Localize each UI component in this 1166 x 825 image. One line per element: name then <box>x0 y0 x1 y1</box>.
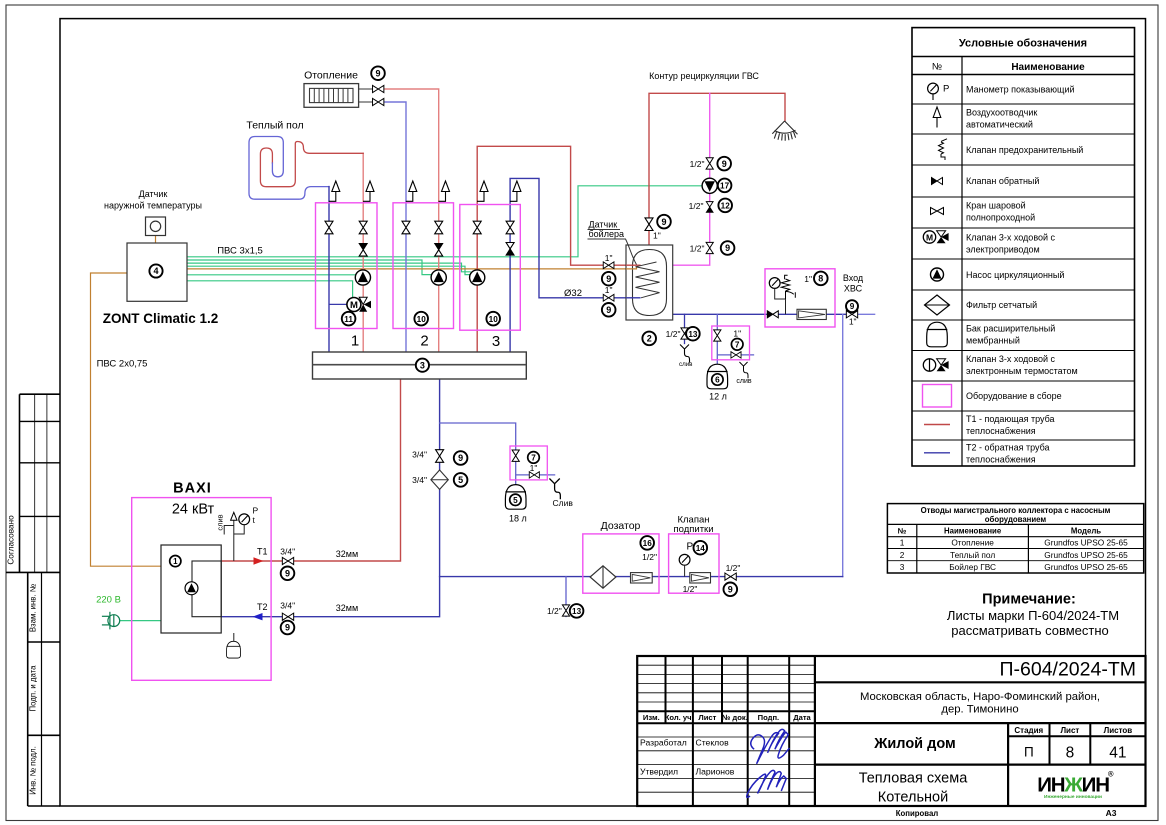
svg-text:1/2": 1/2" <box>690 243 705 253</box>
pump 1 <box>355 270 370 285</box>
check valve group1 <box>359 244 367 257</box>
node 16 <box>640 536 654 550</box>
safety group gauge <box>769 278 785 315</box>
check valve group3 <box>506 243 514 256</box>
svg-text:24 кВт: 24 кВт <box>172 502 215 518</box>
svg-text:Котельной: Котельной <box>878 790 948 806</box>
legend sym: pump <box>931 268 944 281</box>
svg-text:Клапан обратный: Клапан обратный <box>966 176 1039 186</box>
svg-text:Слив: Слив <box>553 498 574 508</box>
assembly box group2 <box>393 203 454 329</box>
18l drain valve <box>529 472 539 478</box>
svg-text:Датчик: Датчик <box>139 189 168 199</box>
pipe radiator red connection <box>384 89 439 352</box>
svg-text:ИНЖИН: ИНЖИН <box>1037 774 1109 797</box>
svg-text:Ларионов: Ларионов <box>696 767 735 777</box>
node 9k <box>724 583 738 597</box>
svg-text:Наименование: Наименование <box>944 527 1002 536</box>
svg-text:9: 9 <box>728 585 733 595</box>
assembly box group1 <box>316 203 378 329</box>
svg-text:Теплый пол: Теплый пол <box>246 120 303 132</box>
recirc valve top <box>706 158 713 169</box>
pump outlet table texts <box>898 506 1111 536</box>
pipe T1 from BAXI <box>221 379 400 561</box>
wire green 220V to BAXI <box>120 620 162 622</box>
node 10a <box>414 312 428 326</box>
svg-text:Кол. уч.: Кол. уч. <box>665 713 694 722</box>
BAXI tank stem <box>233 633 235 641</box>
node 13a <box>570 604 584 618</box>
pipe T2 to BAXI <box>221 379 439 617</box>
svg-text:Утвердил: Утвердил <box>640 767 678 777</box>
svg-text:13: 13 <box>688 330 698 339</box>
pipe group3 red to boiler <box>477 146 640 352</box>
svg-text:16: 16 <box>643 539 653 548</box>
svg-text:9: 9 <box>606 305 611 315</box>
svg-text:®: ® <box>1108 770 1114 779</box>
svg-text:Подп.: Подп. <box>758 713 780 722</box>
shower head <box>772 121 797 141</box>
node 9a <box>371 66 385 80</box>
pipe 12l tank branch <box>717 314 753 364</box>
logo INJIN <box>1037 770 1114 801</box>
legend sym: manometer <box>928 83 950 100</box>
node 7b <box>731 339 743 351</box>
svg-text:Дата: Дата <box>793 713 811 722</box>
svg-text:электронным термостатом: электронным термостатом <box>966 366 1078 376</box>
wire ПВС green 2 to pump 2 <box>187 260 431 275</box>
svg-text:Тепловая схема: Тепловая схема <box>859 771 969 787</box>
svg-text:слив: слив <box>679 361 693 368</box>
svg-text:3: 3 <box>492 333 500 350</box>
pipe T1 red riser group1 <box>362 153 364 352</box>
air vent group3 red <box>477 181 488 201</box>
radiator Отопление <box>304 84 359 108</box>
svg-text:подпитки: подпитки <box>673 524 713 535</box>
svg-text:3/4": 3/4" <box>412 449 427 459</box>
label Вход ХВС <box>843 273 864 294</box>
svg-text:18 л: 18 л <box>509 514 527 524</box>
svg-text:1": 1" <box>605 253 613 263</box>
svg-text:1/2": 1/2" <box>683 584 698 594</box>
wire orange outdoor sensor stub <box>155 236 157 244</box>
svg-text:№ док.: № док. <box>722 713 748 722</box>
svg-text:полнопроходной: полнопроходной <box>966 212 1035 222</box>
svg-text:Оборудование в сборе: Оборудование в сборе <box>966 391 1062 401</box>
svg-text:наружной температуры: наружной температуры <box>104 201 202 211</box>
boiler left lower valve 1" <box>603 294 614 301</box>
svg-text:5: 5 <box>458 475 463 485</box>
radiator valve top <box>373 85 384 92</box>
node 9i <box>281 567 295 581</box>
svg-text:Инв. № подл.: Инв. № подл. <box>29 746 38 795</box>
svg-text:9: 9 <box>285 623 290 633</box>
svg-text:Листы марки П-604/2024-ТМ: Листы марки П-604/2024-ТМ <box>947 608 1119 623</box>
BAXI air vent triangle <box>231 512 237 520</box>
wire ПВС green 5 to pump 1 <box>187 274 356 276</box>
svg-text:8: 8 <box>1066 745 1075 762</box>
node 9j <box>281 621 295 635</box>
wire ПВС green 4 to pump 3 <box>187 266 470 274</box>
signature 1 <box>751 729 790 764</box>
BAXI vent line <box>224 520 234 561</box>
T2 arrow <box>253 613 263 620</box>
svg-text:Согласовано: Согласовано <box>7 515 16 565</box>
pipe floor-heating blue loop <box>249 137 329 200</box>
pump 3 <box>470 270 485 285</box>
pipe cold water boiler out <box>673 313 847 315</box>
label P t <box>253 506 259 526</box>
air vent group1 blue <box>329 181 340 201</box>
svg-text:Теплый пол: Теплый пол <box>950 550 995 560</box>
air vent group2 blue <box>406 181 417 201</box>
svg-text:12 л: 12 л <box>709 392 727 402</box>
svg-text:14: 14 <box>696 544 706 553</box>
ball valve group2 blue <box>402 221 410 234</box>
svg-text:3/4": 3/4" <box>280 547 295 557</box>
svg-text:32мм: 32мм <box>336 549 358 559</box>
svg-text:Листов: Листов <box>1104 726 1133 735</box>
node 17 <box>718 179 732 193</box>
power plug 220V <box>102 612 120 630</box>
left margin lower attribute block <box>28 572 60 806</box>
legend sym: safety valve <box>939 139 948 160</box>
recirc valve bottom <box>706 242 713 253</box>
node 9e <box>717 157 731 171</box>
BAXI expansion tank <box>226 641 240 658</box>
svg-text:Отопление: Отопление <box>951 538 994 548</box>
svg-text:Ø32: Ø32 <box>564 288 582 299</box>
outdoor sensor box <box>146 217 166 236</box>
svg-text:теплоснабжения: теплоснабжения <box>966 454 1036 464</box>
svg-text:10: 10 <box>489 315 499 324</box>
legend names <box>966 84 1083 464</box>
svg-text:2: 2 <box>420 333 428 350</box>
svg-text:1: 1 <box>351 333 359 350</box>
svg-text:Grundfos UPSO 25-65: Grundfos UPSO 25-65 <box>1044 538 1128 548</box>
svg-text:2: 2 <box>647 334 652 344</box>
safety group check valve <box>767 311 778 318</box>
svg-text:№: № <box>898 527 907 536</box>
svg-text:автоматический: автоматический <box>966 119 1033 129</box>
svg-text:7: 7 <box>735 340 740 349</box>
make-up drain valve 13 <box>562 605 569 616</box>
18l valve <box>512 450 519 461</box>
svg-text:Наименование: Наименование <box>1011 62 1085 73</box>
svg-text:Фильтр сетчатый: Фильтр сетчатый <box>966 300 1037 310</box>
boiler top valve <box>645 218 653 231</box>
boiler left upper valve 1" <box>603 262 614 269</box>
wire ПВС green 6 to 3-way valve M <box>187 281 353 298</box>
legend sym: check valve <box>932 178 943 185</box>
BAXI boiler inner box <box>161 545 221 633</box>
ball valve group1 red <box>359 221 367 234</box>
svg-text:8: 8 <box>818 274 823 284</box>
node 9f <box>721 241 735 255</box>
svg-text:1": 1" <box>605 285 613 295</box>
svg-text:№: № <box>932 62 942 73</box>
svg-text:220 В: 220 В <box>96 595 121 606</box>
node 12 <box>718 199 732 213</box>
T1 valve 3/4 <box>282 557 293 564</box>
label Датчик наружной температуры <box>104 189 202 211</box>
svg-text:5: 5 <box>513 496 518 505</box>
svg-text:Манометр показывающий: Манометр показывающий <box>966 84 1075 94</box>
legend sym: 3-way motor valve <box>923 231 948 243</box>
svg-text:Модель: Модель <box>1071 527 1101 536</box>
pipe ГВС recirculation red <box>649 93 785 245</box>
svg-text:Лист: Лист <box>698 713 716 722</box>
make-up gauge <box>679 554 690 576</box>
svg-text:1/2": 1/2" <box>666 329 681 339</box>
svg-text:Клапан 3-х ходовой с: Клапан 3-х ходовой с <box>966 354 1056 364</box>
svg-text:32мм: 32мм <box>336 603 358 613</box>
boiler drain hook <box>680 345 690 363</box>
recirc check valve 12 <box>706 202 713 213</box>
3-way valve M group1 <box>329 297 371 311</box>
svg-text:М: М <box>350 300 358 311</box>
ball valve group3 blue <box>506 221 514 234</box>
make-up line valve <box>725 573 736 580</box>
title block grid <box>637 656 1145 806</box>
legend sym: T1 line <box>924 424 950 426</box>
wire ПВС green 3 to pump 3 <box>187 263 470 272</box>
svg-text:Р: Р <box>687 542 694 553</box>
node 9c <box>602 272 616 286</box>
svg-text:мембранный: мембранный <box>966 336 1020 346</box>
label Клапан подпитки <box>673 515 713 536</box>
12l valve <box>714 330 721 341</box>
ball valve group2 red <box>435 221 443 234</box>
assembly box 18l <box>510 446 547 480</box>
18l drain hook <box>549 479 560 500</box>
svg-text:Инженерные инновации: Инженерные инновации <box>1044 794 1102 800</box>
legend table grid <box>912 28 1135 466</box>
wire ПВС green 1 to recirculation pump <box>187 186 702 257</box>
BAXI gauge <box>234 514 250 534</box>
assembly box safety group <box>765 269 835 327</box>
svg-text:Московская область, Наро-Фомин: Московская область, Наро-Фоминский район… <box>860 691 1100 703</box>
node 9b <box>657 215 671 229</box>
svg-text:Воздухоотводчик: Воздухоотводчик <box>966 107 1037 117</box>
svg-text:Лист: Лист <box>1060 726 1079 735</box>
make-up reducer <box>690 573 711 583</box>
svg-text:Т1: Т1 <box>257 547 268 557</box>
boiler coil <box>636 262 660 298</box>
svg-text:А3: А3 <box>1106 808 1117 818</box>
legend sym: air vent <box>933 107 941 128</box>
node 6 <box>712 374 723 385</box>
svg-text:Взам. инв. №: Взам. инв. № <box>29 584 38 632</box>
node 14 <box>694 541 708 555</box>
pipe group3 blue to boiler <box>510 178 640 352</box>
svg-text:3: 3 <box>900 562 905 572</box>
svg-text:BAXI: BAXI <box>173 481 212 497</box>
svg-text:1: 1 <box>900 538 905 548</box>
svg-text:1/2": 1/2" <box>726 563 741 573</box>
wire orange to boiler sensor <box>187 266 637 269</box>
dozator injector <box>631 573 653 583</box>
svg-text:Отводы магистрального коллекто: Отводы магистрального коллектора с насос… <box>921 506 1111 515</box>
ball valve group3 red <box>473 221 481 234</box>
air vent group2 red <box>439 181 450 201</box>
svg-text:1": 1" <box>653 231 661 241</box>
node 9g <box>846 300 858 312</box>
stage header <box>1014 726 1132 735</box>
boiler indirect heater box <box>626 245 673 320</box>
assembly box group3 <box>460 205 521 331</box>
svg-text:Бак расширительный: Бак расширительный <box>966 324 1055 334</box>
node 8 <box>814 272 828 286</box>
svg-text:3/4": 3/4" <box>412 475 427 485</box>
svg-text:11: 11 <box>344 315 353 324</box>
pipe radiator blue connection <box>384 102 406 352</box>
svg-text:ZONT Climatic 1.2: ZONT Climatic 1.2 <box>103 311 219 326</box>
svg-text:Жилой дом: Жилой дом <box>873 736 955 752</box>
pipe make-up drain stub <box>565 577 567 617</box>
svg-text:Клапан предохранительный: Клапан предохранительный <box>966 145 1083 155</box>
svg-text:Grundfos UPSO 25-65: Grundfos UPSO 25-65 <box>1044 562 1128 572</box>
12l expansion tank <box>707 364 728 389</box>
boiler vessel <box>633 250 667 316</box>
svg-text:бойлера: бойлера <box>589 229 624 239</box>
svg-text:41: 41 <box>1109 745 1126 762</box>
svg-text:ПВС 3х1,5: ПВС 3х1,5 <box>217 246 263 257</box>
node 2 <box>642 332 656 346</box>
manifold <box>313 352 527 379</box>
svg-text:1": 1" <box>804 274 812 284</box>
svg-text:Вход: Вход <box>843 273 864 283</box>
legend sym: expansion tank <box>927 322 948 347</box>
air vent group3 blue <box>510 181 521 201</box>
air vent group1 red <box>363 181 374 201</box>
svg-text:Стадия: Стадия <box>1014 726 1043 735</box>
svg-text:2: 2 <box>900 550 905 560</box>
svg-text:Изм.: Изм. <box>643 713 660 722</box>
svg-text:17: 17 <box>720 182 730 191</box>
node 10b <box>486 312 500 326</box>
svg-text:9: 9 <box>725 243 730 253</box>
svg-text:13: 13 <box>572 607 582 616</box>
legend sym: assembly box <box>923 385 952 408</box>
svg-text:ПВС 2х0,75: ПВС 2х0,75 <box>97 359 148 370</box>
dozator filter diamond <box>590 566 616 588</box>
radiator stubs black <box>359 89 373 102</box>
svg-text:9: 9 <box>606 274 611 284</box>
12l drain hook <box>739 362 748 378</box>
svg-text:9: 9 <box>375 68 380 78</box>
BAXI pump <box>185 582 198 595</box>
assembly box 12l <box>712 326 750 360</box>
signature 2 <box>747 770 787 797</box>
svg-text:Р: Р <box>253 506 259 516</box>
T2 valve 3/4 <box>282 613 293 620</box>
pipe recirculation magenta <box>673 93 710 265</box>
svg-text:рассматривать совместно: рассматривать совместно <box>951 623 1109 638</box>
svg-text:7: 7 <box>531 453 536 462</box>
svg-text:слив: слив <box>216 514 225 530</box>
svg-text:Контур рециркуляции ГВС: Контур рециркуляции ГВС <box>649 71 759 81</box>
svg-text:9: 9 <box>458 453 463 463</box>
T2 riser valve 3/4 <box>436 450 444 463</box>
svg-text:Датчик: Датчик <box>589 220 618 230</box>
svg-text:Стеклов: Стеклов <box>696 738 730 748</box>
recirc pump 17 <box>702 178 717 193</box>
svg-text:Копировал: Копировал <box>896 809 939 818</box>
svg-text:3: 3 <box>420 360 425 370</box>
12l drain valve <box>731 352 741 358</box>
svg-text:3/4": 3/4" <box>280 601 295 611</box>
svg-text:Бойлер ГВС: Бойлер ГВС <box>949 562 996 572</box>
legend sym: ball valve <box>931 208 944 215</box>
pipe T2 blue riser group1 <box>328 187 330 352</box>
svg-text:Насос циркуляционный: Насос циркуляционный <box>966 270 1064 280</box>
ball valve group1 blue <box>325 221 333 234</box>
legend sym: 3-way thermostat valve <box>923 359 948 371</box>
pipe ХВС feed down <box>842 314 844 576</box>
svg-text:Т1 - подающая труба: Т1 - подающая труба <box>966 414 1055 424</box>
svg-text:9: 9 <box>661 217 666 227</box>
node 1 <box>170 556 181 567</box>
svg-text:Р: Р <box>943 84 949 95</box>
title block header labels <box>643 713 812 722</box>
ZONT controller box <box>127 243 187 301</box>
svg-text:9: 9 <box>850 302 855 311</box>
svg-text:слив: слив <box>736 378 751 385</box>
boiler inlet stubs inside vessel <box>626 264 641 266</box>
svg-text:9: 9 <box>285 569 290 579</box>
pipe 18l tank branch <box>440 423 555 485</box>
svg-text:Условные обозначения: Условные обозначения <box>959 38 1087 50</box>
svg-text:Подп. и дата: Подп. и дата <box>29 665 38 712</box>
svg-text:4: 4 <box>153 266 158 276</box>
svg-text:Примечание:: Примечание: <box>982 592 1076 608</box>
svg-text:6: 6 <box>715 376 720 385</box>
svg-text:12: 12 <box>721 202 731 211</box>
title block names <box>640 738 735 777</box>
svg-text:10: 10 <box>417 315 427 324</box>
svg-text:Отопление: Отопление <box>304 70 358 82</box>
safety group relief valve <box>781 275 795 299</box>
svg-text:оборудованием: оборудованием <box>985 515 1047 524</box>
legend sym: T2 line <box>924 452 950 454</box>
label Датчик бойлера with leader <box>588 220 637 265</box>
svg-text:1": 1" <box>849 317 857 327</box>
assembly box BAXI <box>132 498 271 681</box>
node 13b <box>686 327 700 341</box>
svg-text:1/2": 1/2" <box>690 159 705 169</box>
wire orange to BAXI <box>91 273 162 566</box>
svg-text:Grundfos UPSO 25-65: Grundfos UPSO 25-65 <box>1044 550 1128 560</box>
svg-text:Клапан 3-х ходовой с: Клапан 3-х ходовой с <box>966 232 1056 242</box>
svg-text:дер. Тимонино: дер. Тимонино <box>941 704 1018 716</box>
svg-text:ХВС: ХВС <box>844 284 863 294</box>
node 4 <box>149 264 162 277</box>
left margin upper attribute block <box>6 394 60 572</box>
svg-text:Т2 - обратная труба: Т2 - обратная труба <box>966 442 1050 452</box>
node 11 <box>342 312 356 326</box>
svg-text:Разработал: Разработал <box>640 738 687 748</box>
pump outlet table grid <box>887 504 1143 573</box>
svg-text:1/2": 1/2" <box>689 201 704 211</box>
safety group filter <box>797 309 826 319</box>
BAXI heat exchanger rect <box>192 561 221 617</box>
svg-text:1: 1 <box>173 557 178 566</box>
node 5a <box>454 473 468 487</box>
svg-text:электроприводом: электроприводом <box>966 244 1040 254</box>
check valve group2 <box>435 244 443 257</box>
node 3 <box>416 359 429 372</box>
